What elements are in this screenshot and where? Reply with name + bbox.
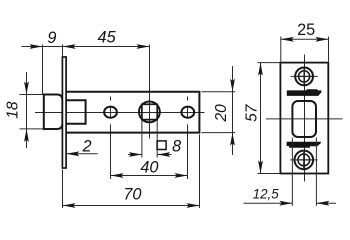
svg-text:25: 25: [297, 21, 315, 39]
svg-text:20: 20: [213, 104, 230, 123]
svg-text:12,5: 12,5: [253, 187, 280, 202]
svg-text:18: 18: [4, 101, 21, 119]
svg-text:40: 40: [140, 159, 158, 177]
svg-text:57: 57: [243, 103, 260, 122]
svg-text:2: 2: [81, 137, 91, 155]
svg-text:45: 45: [98, 28, 117, 46]
svg-text:9: 9: [47, 29, 56, 47]
svg-text:70: 70: [123, 185, 141, 203]
svg-text:8: 8: [172, 138, 181, 156]
